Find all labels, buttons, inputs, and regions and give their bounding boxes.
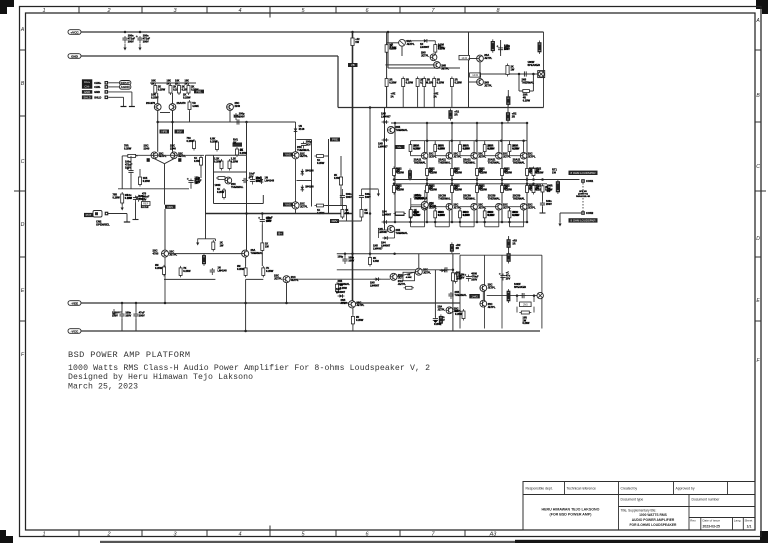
resistor R52 emit top <box>451 167 454 178</box>
label D11 lbl <box>382 211 392 217</box>
wire grpB bot <box>361 219 363 221</box>
svg-text:C: C <box>21 159 25 165</box>
wire q20 base h <box>411 155 422 157</box>
label C10 y122 value <box>234 116 240 119</box>
label Q41 lm ref <box>423 269 431 275</box>
label Q5 mirror ref <box>235 102 241 108</box>
wire q17 loop h <box>378 229 387 231</box>
wire cn w3b <box>131 92 133 107</box>
resistor R18 vas r <box>315 155 326 158</box>
wire q5 dn <box>229 110 231 122</box>
net tag net os tag B <box>395 212 405 216</box>
label Q16 os drv ref <box>396 126 409 132</box>
svg-text:0.25W: 0.25W <box>124 147 132 150</box>
resistor R27 pre d4 <box>262 266 265 278</box>
label R70 base bot value <box>413 211 421 217</box>
wire trb w6 <box>469 81 477 83</box>
svg-text:0.25W: 0.25W <box>237 268 245 271</box>
label D1 lbl <box>265 176 275 183</box>
label R42 base top value <box>463 145 471 151</box>
label C22 lm value <box>439 316 445 322</box>
capacitor C21 lm <box>342 257 347 264</box>
svg-text:C: C <box>756 164 760 170</box>
wire stage2 rail <box>136 154 204 156</box>
label Q30 bot row ref <box>429 204 437 210</box>
svg-text:SPEAKER: SPEAKER <box>528 63 541 67</box>
label D5 trb value <box>420 43 430 49</box>
node os vj bot 2 <box>451 221 454 224</box>
label R15 vas value <box>231 158 239 164</box>
wire q21 base w <box>434 152 436 156</box>
transistor Q13 trb <box>434 62 441 69</box>
svg-text:2SA970: 2SA970 <box>146 102 156 105</box>
wire grpC up <box>410 198 412 208</box>
label R trbrow0 value <box>389 79 397 85</box>
svg-text:100V: 100V <box>112 314 118 317</box>
wire c7 up <box>130 156 132 169</box>
node q9 rail dot <box>164 302 167 305</box>
transistor Q8 vas bot <box>292 202 299 209</box>
transistor Q2 input pair B <box>169 104 176 111</box>
net tag net tag input fuse <box>194 90 204 94</box>
label R91 lbl <box>523 317 531 326</box>
wire vas out vert <box>328 139 330 214</box>
capacitor C31 grpB <box>359 194 364 201</box>
wire grpC h <box>411 204 422 206</box>
wire q32 dn <box>473 210 475 227</box>
svg-text:JETPL: JETPL <box>484 84 492 87</box>
wire cap drop w1 <box>121 303 123 312</box>
label R17 vas low value <box>217 188 225 194</box>
label R87 lm value <box>356 316 364 322</box>
wire cage mid <box>297 180 312 182</box>
resistor R13 vas <box>236 147 239 157</box>
wire mid rail y221 <box>333 220 362 222</box>
wire os vert 4 <box>501 123 503 222</box>
svg-text:25V: 25V <box>267 219 272 223</box>
component box U4 trb box3 <box>470 73 481 77</box>
svg-text:0.25W: 0.25W <box>113 196 121 199</box>
trimmer RV1 body <box>233 143 243 147</box>
label R in4 value <box>191 86 199 92</box>
label R36 lbl <box>454 110 459 117</box>
svg-text:JETPL: JETPL <box>484 57 492 60</box>
label C2 rail A value <box>143 35 151 44</box>
svg-text:100V: 100V <box>125 314 131 317</box>
svg-text:VB: VB <box>351 63 355 67</box>
wire q4 emit <box>165 159 174 164</box>
svg-text:0.5W: 0.5W <box>438 214 444 217</box>
svg-text:1W: 1W <box>355 41 359 44</box>
net tag net GND2 tag <box>141 204 149 208</box>
node R56 dotA <box>532 178 535 181</box>
svg-text:A: A <box>20 27 25 33</box>
label R40 lbl <box>414 145 420 151</box>
resistor R trbrow1 <box>402 77 405 89</box>
resistor R41 base top <box>434 143 437 154</box>
wire cell2 tw <box>459 123 461 141</box>
svg-text:10V: 10V <box>195 182 200 185</box>
resistor R97 mid rail <box>394 212 407 215</box>
capacitor C20 zobel <box>540 201 545 208</box>
svg-text:2023-03-25: 2023-03-25 <box>703 525 720 529</box>
svg-text:THERMAL: THERMAL <box>463 161 476 164</box>
resistor R in3 <box>178 84 181 96</box>
label Q47 ref <box>415 194 428 200</box>
resistor R71 base bot <box>434 209 437 220</box>
wire lm rail y253 <box>337 253 460 255</box>
svg-text:THERMAL: THERMAL <box>438 161 451 164</box>
wire vas vert 205 ext <box>205 214 207 239</box>
label Q42b ref <box>438 306 446 312</box>
gnd bar cn3 <box>129 106 135 108</box>
resistor R in2 <box>169 84 172 96</box>
wire cn w4 <box>108 96 123 98</box>
node R63 dotB <box>476 183 479 186</box>
label input lbl 3 <box>94 90 100 94</box>
transistor Q15 trb r2 <box>477 79 484 86</box>
svg-text:0.25W: 0.25W <box>183 96 191 100</box>
label R51 emit top value <box>430 169 438 175</box>
q4 bias box <box>178 158 181 162</box>
svg-text:LM4148: LM4148 <box>218 269 228 272</box>
svg-text:THERMAL: THERMAL <box>396 129 409 132</box>
label R56 lbl <box>535 168 541 174</box>
resistor R43 base top <box>483 143 486 154</box>
label C25 brb value <box>471 273 479 282</box>
label C18 lbl <box>504 44 510 51</box>
resistor R61 emit bot <box>426 184 429 195</box>
wire cap join bottom2 <box>135 319 137 331</box>
node x370 j2 <box>369 212 372 215</box>
label R85 lm value <box>459 274 465 280</box>
svg-text:0.25W: 0.25W <box>217 191 225 194</box>
svg-text:2A: 2A <box>434 95 437 98</box>
svg-text:0.25W: 0.25W <box>523 99 531 102</box>
capacitor C12 vas <box>242 178 248 183</box>
label C26 brb value <box>506 272 511 281</box>
wire q2 up <box>172 93 174 104</box>
net tag net -V rail3 <box>68 301 81 306</box>
wire vas out h2 <box>326 205 329 207</box>
transistor Q17 os drv b <box>387 225 394 232</box>
capacitor C16 pre <box>210 268 215 275</box>
label Q4 cascode B ref <box>178 152 186 158</box>
label J1 lbl <box>528 60 541 67</box>
label R60 emit bot value <box>397 186 405 192</box>
resistor R25 pre d2 <box>179 266 182 278</box>
wire q31 base wb <box>435 206 446 208</box>
transistor Q9 predrv A <box>162 250 169 257</box>
resistor (power) R90 brb feed2 <box>507 238 511 250</box>
component box U6 lm box <box>403 272 415 281</box>
svg-text:JETPL: JETPL <box>356 304 364 307</box>
wire R5 up <box>189 112 191 123</box>
label R42 lbl <box>463 145 469 151</box>
svg-text:100V: 100V <box>139 314 145 317</box>
wire trb vert 468 <box>468 32 470 108</box>
label Q22 ref <box>463 159 476 165</box>
resistor R50 emit top <box>393 167 396 178</box>
net tag net LS tag A <box>569 171 598 175</box>
label R28 right value <box>265 243 269 249</box>
wire grpA top <box>341 189 343 194</box>
wire lm rail y270 <box>337 269 422 271</box>
svg-text:0.25W: 0.25W <box>437 81 445 84</box>
svg-text:4.99K: 4.99K <box>406 276 412 279</box>
frame tick right row0 <box>755 49 761 51</box>
wire trb q14 j <box>479 62 481 79</box>
wire trb w1 <box>387 42 399 44</box>
svg-text:1W: 1W <box>511 68 515 71</box>
resistor R31 trb <box>434 43 437 55</box>
svg-text:DRV: DRV <box>167 205 173 209</box>
wire R28 dn <box>261 252 263 266</box>
label Rin labels2 <box>183 93 191 100</box>
wire vas box left <box>213 155 215 203</box>
wire r42 top w <box>459 141 461 145</box>
fold mark left <box>14 190 26 192</box>
svg-text:REF: REF <box>143 202 149 206</box>
wire ls w2 <box>560 212 581 214</box>
wire q21 up <box>448 141 450 153</box>
svg-text:0.25W: 0.25W <box>455 81 463 84</box>
svg-text:16V: 16V <box>127 196 132 200</box>
resistor R54 emit top <box>501 167 504 178</box>
wire vas inner h <box>214 171 247 173</box>
svg-text:NFB: NFB <box>161 130 167 134</box>
node cell2 bj <box>459 221 462 224</box>
node lm j1 <box>344 253 347 256</box>
wire rail y213 heavy <box>206 213 353 215</box>
label Q20 top row ref <box>429 153 437 159</box>
transistor Q10 predrv B <box>242 250 249 257</box>
label Q45 brb ref <box>488 303 496 309</box>
resistor R trbrow3 <box>423 77 426 89</box>
label R in1 value <box>151 80 156 86</box>
svg-text:4: 4 <box>238 532 241 538</box>
frame tick left row3 <box>20 320 26 322</box>
wire elbow v <box>214 239 216 241</box>
diode D2 vas col <box>294 127 298 134</box>
resistor R26 pre d3 <box>244 266 247 278</box>
net tag net VAS1 <box>283 153 293 157</box>
svg-text:1443: 1443 <box>471 294 478 298</box>
svg-text:0.25W: 0.25W <box>389 81 397 84</box>
node R66 dotB <box>532 183 535 186</box>
resistor R10 mid <box>200 156 203 168</box>
svg-text:Sheet: Sheet <box>745 519 753 523</box>
wire q9 down to rail <box>164 257 166 303</box>
wire r73 bot w <box>484 218 486 227</box>
transistor Q14 trb r <box>477 55 484 62</box>
label Q33 bot row ref <box>503 204 511 210</box>
svg-text:LM4007: LM4007 <box>381 244 391 247</box>
resistor (power) R35 trb black3 <box>507 95 511 107</box>
component box U1 ref box <box>142 202 151 206</box>
svg-text:Created by: Created by <box>621 487 638 491</box>
ls dashed link <box>582 183 584 211</box>
label R70 lbl <box>414 211 420 217</box>
wire lm link q40 q41 <box>397 272 415 277</box>
label C8 fb2 value <box>142 193 150 202</box>
label Q1 input pair A ref <box>146 102 156 105</box>
svg-text:Technical reference: Technical reference <box>567 487 597 491</box>
label R55 emit top value <box>530 169 538 175</box>
connector J1 body <box>538 71 545 78</box>
wire R20 up <box>340 156 342 175</box>
label R63 lbl <box>479 185 485 191</box>
label R30 lbl <box>390 43 397 50</box>
label C13 vas p value <box>256 177 262 183</box>
node j122 a <box>156 121 159 124</box>
svg-text:SPEAKER: SPEAKER <box>514 286 526 289</box>
node zb j2 <box>532 73 535 76</box>
label R62 lbl <box>454 185 460 191</box>
node junction rail D cap2 <box>135 302 138 305</box>
svg-text:2: 2 <box>106 532 110 538</box>
label Q15 trb r2 ref <box>484 82 492 88</box>
label Rin labels1 <box>151 93 159 100</box>
label ls note <box>576 191 591 198</box>
wire os vert 5 <box>526 123 528 222</box>
label C18 trb value <box>504 45 510 51</box>
resistor R51 emit top <box>426 167 429 178</box>
svg-text:PARALLEL 4R: PARALLEL 4R <box>576 195 591 198</box>
net tag net POT tag <box>84 213 93 217</box>
svg-text:0.5W: 0.5W <box>513 214 519 217</box>
wire brb right <box>541 255 543 328</box>
label R54 emit top value <box>505 169 513 175</box>
svg-text:CHN-: CHN- <box>94 85 101 89</box>
svg-text:1W: 1W <box>414 212 418 215</box>
cs circle Q11 <box>399 39 406 46</box>
svg-text:8 OHM LOUDSPKR: 8 OHM LOUDSPKR <box>570 171 595 175</box>
svg-text:Title, Supplementary title:: Title, Supplementary title: <box>621 509 657 513</box>
svg-text:100V: 100V <box>456 277 462 280</box>
capacitor C22 lm <box>433 317 438 324</box>
label R80 zobel value <box>545 186 553 192</box>
node out node j <box>541 178 544 181</box>
svg-text:VAS: VAS <box>285 153 291 157</box>
diode D4 cage <box>301 185 305 192</box>
wire r35 vert <box>507 90 509 96</box>
net tag net OUT pre <box>330 138 340 142</box>
label R22 pre value <box>220 242 224 248</box>
label R80 value <box>547 185 553 194</box>
svg-text:THERMAL: THERMAL <box>251 252 264 255</box>
resistor R60 emit bot <box>393 184 396 195</box>
label R25 pre d2 value <box>183 267 191 273</box>
wire q33 base wv <box>484 207 486 211</box>
wire vas vert 205 <box>205 155 207 213</box>
node os vj bot 3 <box>476 221 479 224</box>
net tag input tag 4 <box>82 95 92 99</box>
transistor Q20 top row <box>421 152 428 159</box>
transistor Q1 input pair A <box>154 104 161 111</box>
fold mark right <box>755 190 766 192</box>
wire elbow h <box>198 238 216 240</box>
node cell0 bj <box>409 221 412 224</box>
svg-text:CH+: CH+ <box>84 80 90 84</box>
svg-text:-VCC: -VCC <box>71 329 79 333</box>
wire vert x370 <box>369 108 371 254</box>
wire q31 base wv <box>434 207 436 211</box>
wire trb out wire <box>481 73 538 75</box>
svg-text:0.5W: 0.5W <box>463 147 469 150</box>
label Q22 top row ref <box>478 153 486 159</box>
node dot 394 rail <box>393 253 396 256</box>
transistor Q12 trb <box>430 54 437 61</box>
label R43 lbl <box>488 145 494 151</box>
label Q43 lm main ref <box>356 301 364 307</box>
resistor R91 brb zb <box>519 311 531 314</box>
svg-text:JETPL: JETPL <box>441 67 449 70</box>
svg-text:0.25W: 0.25W <box>231 160 239 163</box>
wire vas cage left <box>297 139 312 141</box>
scan artifact top-right <box>756 0 768 14</box>
net tag net -VCC rail bottom <box>68 329 81 334</box>
transistor Q3 cascode A <box>151 152 158 159</box>
wire pre rail y253 <box>169 253 242 255</box>
net tag net DRV tag <box>165 205 176 209</box>
svg-text:JETPL: JETPL <box>488 286 496 289</box>
label R96 grpB value <box>364 209 368 215</box>
ground arrow gnd R9 <box>121 204 124 211</box>
wire q33 base wb <box>485 206 496 208</box>
transistor Q47 mid <box>421 201 428 208</box>
label Q3 ref <box>144 144 150 151</box>
frame tick bottom col4 <box>269 530 271 537</box>
wire q47 up <box>424 190 426 201</box>
wire q22 base w <box>459 152 461 156</box>
svg-text:JETPL: JETPL <box>528 207 536 210</box>
svg-text:1N4148: 1N4148 <box>305 186 314 189</box>
wire r41 top w <box>434 141 436 145</box>
scan artifact bottom-right <box>760 531 768 543</box>
svg-text:0.25W: 0.25W <box>187 140 195 143</box>
wire grpA mid <box>341 201 343 208</box>
svg-text:25V: 25V <box>506 277 511 280</box>
capacitor C17 pre p <box>258 217 265 225</box>
node os vj bot 1 <box>426 221 429 224</box>
transistor Q22 top row <box>471 152 478 159</box>
node R51 dotA <box>426 178 429 181</box>
svg-text:1: 1 <box>42 532 45 538</box>
wire q1 up <box>157 93 159 104</box>
svg-text:2R: 2R <box>454 113 457 117</box>
label D2 lbl <box>299 124 305 131</box>
capacitor C3 rail D <box>118 311 125 319</box>
wire c15 dn <box>135 203 137 220</box>
svg-text:JETPL: JETPL <box>438 308 446 311</box>
svg-text:1W: 1W <box>220 244 224 247</box>
wire r72 bot w <box>459 218 461 227</box>
wire rail y68b <box>385 64 433 66</box>
ground arrow gnd arrow grpB <box>377 190 380 197</box>
svg-text:0.25W: 0.25W <box>434 323 442 326</box>
label R trbrow2 value <box>420 79 428 85</box>
svg-text:LM4007: LM4007 <box>381 115 391 119</box>
label C24 lm value <box>455 291 468 297</box>
node q10 dot 331 <box>244 330 247 333</box>
wire q1 q2 base link <box>160 112 170 114</box>
label lbl +VE a <box>391 93 396 99</box>
title block rev v3 <box>742 518 744 531</box>
svg-text:0.5W: 0.5W <box>414 147 420 150</box>
svg-text:Responsible dept.: Responsible dept. <box>526 487 553 491</box>
label C15 left value <box>139 195 145 201</box>
